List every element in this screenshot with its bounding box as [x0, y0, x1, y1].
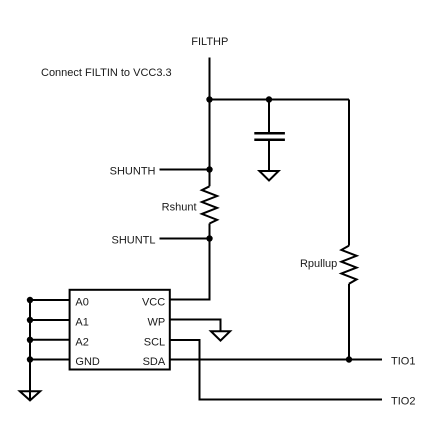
junction node SHUNTL	[206, 235, 212, 241]
wire SDA to TIO1	[170, 359, 382, 361]
junction node Rpullup/SDA	[346, 356, 352, 362]
svg-text:Connect FILTIN to VCC3.3: Connect FILTIN to VCC3.3	[41, 67, 172, 79]
resistor Rpullup	[341, 246, 356, 284]
wire SCL to TIO2	[170, 340, 382, 400]
svg-text:TIO1: TIO1	[391, 355, 415, 367]
svg-text:A0: A0	[75, 296, 88, 308]
svg-text:SHUNTL: SHUNTL	[111, 234, 155, 246]
wire pin A0	[30, 299, 69, 301]
svg-text:TIO2: TIO2	[391, 395, 415, 407]
svg-text:SDA: SDA	[143, 356, 166, 368]
ground under capacitor	[259, 171, 278, 181]
wire Rpullup bottom	[348, 284, 350, 360]
svg-text:A1: A1	[75, 316, 88, 328]
junction node capacitor/top-rail	[266, 96, 272, 102]
svg-text:Rshunt: Rshunt	[162, 201, 197, 213]
wire capacitor to ground	[268, 141, 270, 171]
wire SHUNTL	[160, 238, 210, 240]
wire Rpullup top	[348, 100, 350, 246]
wire SHUNTH	[160, 169, 210, 171]
wire pin GND	[30, 359, 69, 361]
ground WP	[211, 331, 230, 340]
wire pin A2	[30, 339, 69, 341]
capacitor C1	[254, 133, 285, 139]
wire left ground bus	[29, 300, 31, 400]
svg-text:VCC: VCC	[142, 296, 165, 308]
junction node A0	[27, 297, 33, 303]
junction node FILTHP/top-rail	[206, 96, 212, 102]
wire Rshunt to VCC pin	[170, 224, 210, 300]
wire top rail	[210, 99, 350, 101]
svg-text:SHUNTH: SHUNTH	[110, 165, 156, 177]
wire FILTHP vertical	[209, 58, 211, 187]
wire WP to ground	[170, 320, 221, 332]
junction node A1	[27, 317, 33, 323]
junction node A2	[27, 337, 33, 343]
svg-text:Rpullup: Rpullup	[300, 258, 337, 270]
svg-text:FILTHP: FILTHP	[191, 36, 228, 48]
junction node SHUNTH	[206, 166, 212, 172]
ground left bus	[20, 391, 40, 400]
svg-text:A2: A2	[75, 336, 88, 348]
wire capacitor top stub	[268, 100, 270, 133]
svg-text:SCL: SCL	[144, 336, 165, 348]
svg-text:GND: GND	[75, 356, 100, 368]
svg-text:WP: WP	[147, 316, 165, 328]
junction node GND	[27, 356, 33, 362]
wire pin A1	[30, 319, 69, 321]
IC U1 body	[70, 290, 170, 370]
resistor Rshunt	[202, 186, 217, 223]
